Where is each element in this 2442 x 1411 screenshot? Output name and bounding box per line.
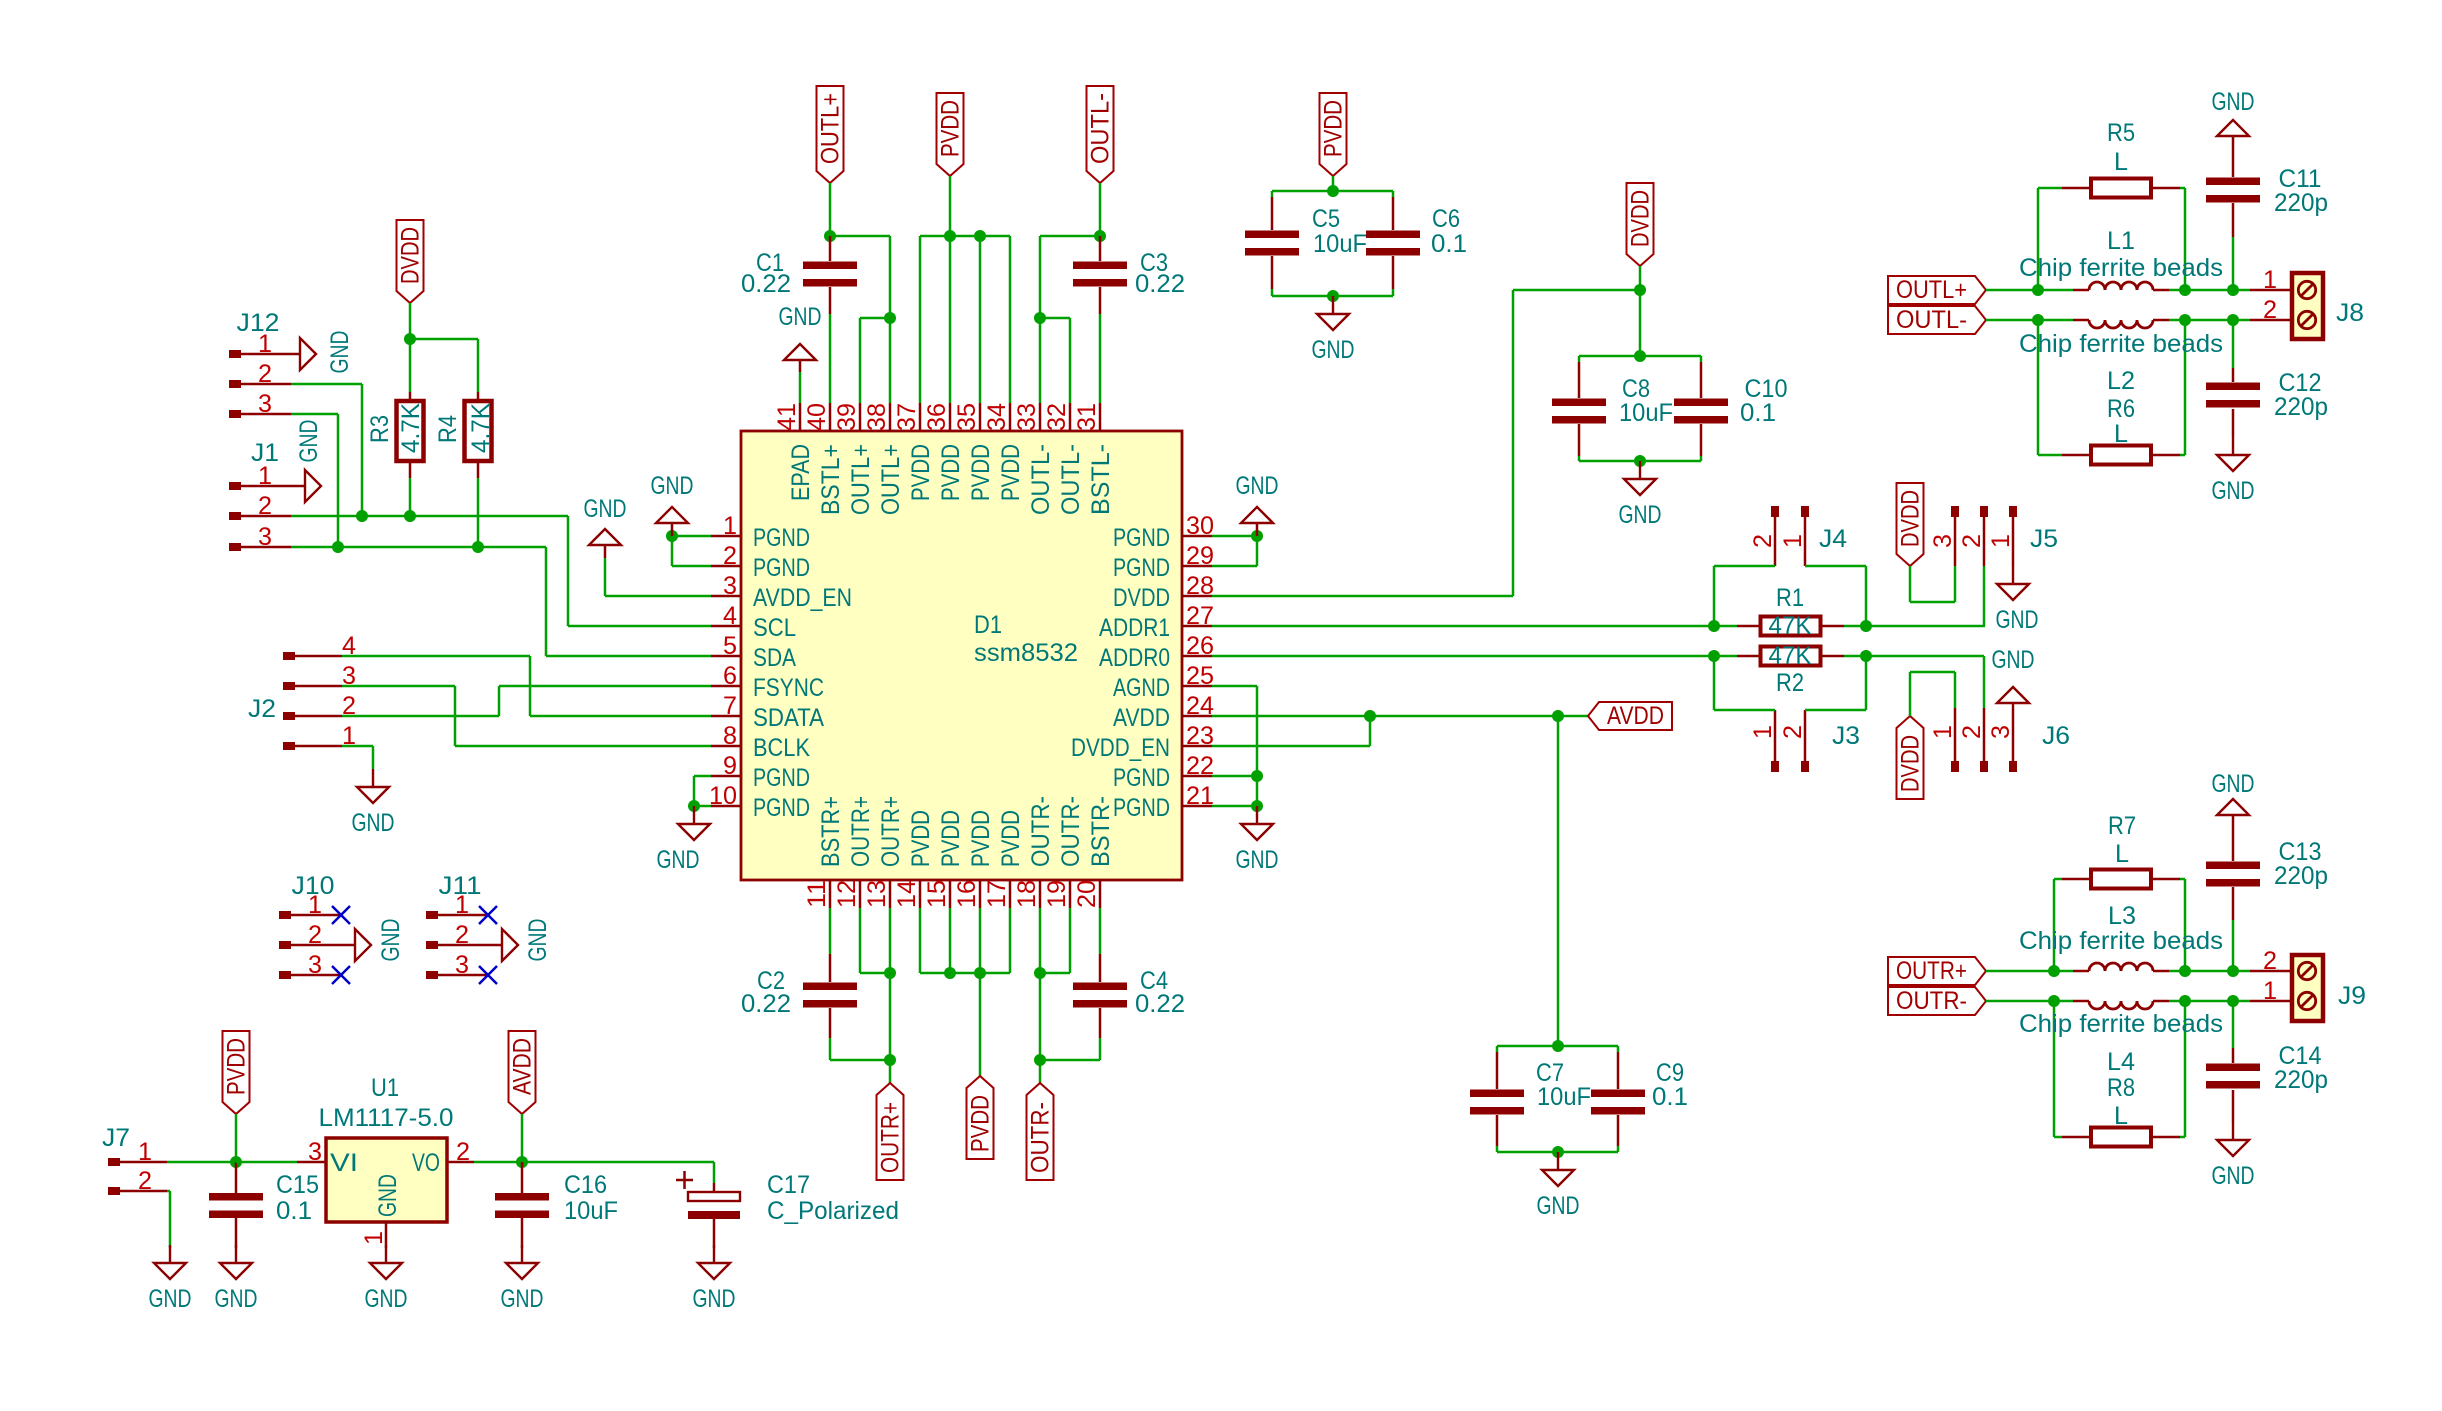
svg-text:PVDD: PVDD	[223, 1038, 251, 1095]
svg-text:C17: C17	[767, 1171, 810, 1199]
svg-text:Chip ferrite beads: Chip ferrite beads	[2019, 330, 2223, 358]
svg-text:35: 35	[953, 403, 981, 431]
svg-text:PVDD: PVDD	[967, 1095, 995, 1152]
svg-text:3: 3	[1929, 534, 1957, 548]
svg-text:VO: VO	[412, 1149, 440, 1177]
svg-text:26: 26	[1186, 632, 1214, 660]
svg-text:PVDD: PVDD	[997, 444, 1025, 501]
svg-text:2: 2	[456, 1138, 470, 1166]
svg-text:C6: C6	[1432, 205, 1460, 233]
svg-text:0.1: 0.1	[276, 1197, 312, 1225]
svg-text:2: 2	[1958, 725, 1986, 739]
svg-text:1: 1	[1987, 534, 2015, 548]
svg-text:31: 31	[1073, 403, 1101, 431]
svg-text:J2: J2	[248, 695, 276, 723]
svg-text:Chip ferrite beads: Chip ferrite beads	[2019, 254, 2223, 282]
svg-text:J8: J8	[2336, 299, 2364, 327]
svg-text:GND: GND	[657, 846, 700, 874]
svg-text:22: 22	[1186, 752, 1214, 780]
svg-text:L: L	[2115, 840, 2129, 868]
svg-text:33: 33	[1013, 403, 1041, 431]
svg-text:EPAD: EPAD	[787, 444, 815, 501]
svg-text:0.22: 0.22	[1135, 990, 1185, 1018]
svg-text:U1: U1	[371, 1074, 399, 1102]
svg-text:0.1: 0.1	[1431, 230, 1467, 258]
svg-text:0.1: 0.1	[1740, 399, 1776, 427]
svg-text:1: 1	[258, 330, 272, 358]
svg-text:OUTR+: OUTR+	[1896, 957, 1967, 985]
svg-text:OUTR+: OUTR+	[877, 796, 905, 867]
svg-text:SDATA: SDATA	[753, 704, 824, 732]
svg-text:ssm8532: ssm8532	[974, 639, 1078, 667]
svg-text:1: 1	[1749, 725, 1777, 739]
svg-text:14: 14	[893, 880, 921, 908]
svg-text:39: 39	[833, 403, 861, 431]
svg-text:L4: L4	[2107, 1048, 2135, 1076]
svg-text:7: 7	[723, 692, 737, 720]
svg-text:PVDD: PVDD	[907, 810, 935, 867]
svg-text:GND: GND	[295, 420, 323, 463]
svg-text:R6: R6	[2107, 395, 2135, 423]
svg-text:PVDD: PVDD	[937, 100, 965, 157]
svg-text:34: 34	[983, 403, 1011, 431]
svg-text:PGND: PGND	[753, 524, 810, 552]
svg-text:4.7K: 4.7K	[397, 403, 425, 453]
svg-text:BSTL-: BSTL-	[1087, 444, 1115, 515]
svg-text:220p: 220p	[2274, 1066, 2328, 1094]
svg-text:GND: GND	[1996, 606, 2039, 634]
svg-text:GND: GND	[1312, 336, 1355, 364]
svg-text:PGND: PGND	[1113, 524, 1170, 552]
svg-text:4: 4	[723, 602, 737, 630]
svg-text:4.7K: 4.7K	[467, 403, 495, 453]
svg-text:5: 5	[723, 632, 737, 660]
svg-text:20: 20	[1073, 880, 1101, 908]
svg-text:GND: GND	[1537, 1192, 1580, 1220]
svg-text:GND: GND	[584, 495, 627, 523]
svg-text:3: 3	[308, 951, 322, 979]
svg-text:47K: 47K	[1769, 642, 1812, 670]
svg-text:J3: J3	[1832, 722, 1860, 750]
svg-text:BSTL+: BSTL+	[817, 444, 845, 515]
svg-text:0.22: 0.22	[1135, 270, 1185, 298]
svg-text:15: 15	[923, 880, 951, 908]
svg-text:PGND: PGND	[1113, 554, 1170, 582]
svg-text:47K: 47K	[1769, 612, 1812, 640]
svg-text:18: 18	[1013, 880, 1041, 908]
svg-text:PVDD: PVDD	[1320, 100, 1348, 157]
svg-text:40: 40	[803, 403, 831, 431]
svg-text:VI: VI	[330, 1149, 358, 1177]
svg-text:GND: GND	[365, 1285, 408, 1313]
svg-text:3: 3	[723, 572, 737, 600]
svg-text:DVDD: DVDD	[1897, 490, 1925, 547]
svg-text:GND: GND	[1236, 846, 1279, 874]
svg-text:1: 1	[258, 462, 272, 490]
svg-text:2: 2	[2263, 947, 2277, 975]
svg-text:AGND: AGND	[1113, 674, 1170, 702]
svg-text:21: 21	[1186, 782, 1214, 810]
svg-text:DVDD: DVDD	[1627, 190, 1655, 247]
svg-text:C16: C16	[564, 1171, 607, 1199]
svg-text:37: 37	[893, 403, 921, 431]
svg-text:25: 25	[1186, 662, 1214, 690]
svg-text:2: 2	[455, 921, 469, 949]
svg-text:GND: GND	[2212, 88, 2255, 116]
svg-text:GND: GND	[352, 809, 395, 837]
svg-text:GND: GND	[501, 1285, 544, 1313]
svg-text:GND: GND	[2212, 1162, 2255, 1190]
svg-text:C15: C15	[276, 1171, 319, 1199]
svg-text:OUTL-: OUTL-	[1896, 306, 1967, 334]
svg-text:OUTL+: OUTL+	[1896, 276, 1967, 304]
svg-text:DVDD: DVDD	[1113, 584, 1170, 612]
svg-text:L: L	[2114, 420, 2128, 448]
svg-text:ADDR1: ADDR1	[1099, 614, 1170, 642]
svg-text:C5: C5	[1312, 205, 1340, 233]
svg-text:10uF: 10uF	[1537, 1083, 1591, 1111]
svg-text:SCL: SCL	[753, 614, 796, 642]
svg-text:GND: GND	[2212, 770, 2255, 798]
svg-text:OUTL-: OUTL-	[1057, 444, 1085, 515]
svg-text:PVDD: PVDD	[997, 810, 1025, 867]
svg-text:R7: R7	[2108, 812, 2136, 840]
svg-text:0.22: 0.22	[741, 990, 791, 1018]
svg-text:L3: L3	[2108, 902, 2136, 930]
svg-text:28: 28	[1186, 572, 1214, 600]
svg-text:L1: L1	[2107, 227, 2135, 255]
svg-text:PVDD: PVDD	[937, 444, 965, 501]
svg-text:GND: GND	[374, 1174, 402, 1217]
svg-text:GND: GND	[149, 1285, 192, 1313]
svg-text:220p: 220p	[2274, 189, 2328, 217]
svg-text:2: 2	[1749, 534, 1777, 548]
svg-text:J9: J9	[2338, 982, 2366, 1010]
svg-text:3: 3	[308, 1138, 322, 1166]
svg-text:17: 17	[983, 880, 1011, 908]
svg-text:1: 1	[1779, 534, 1807, 548]
svg-text:24: 24	[1186, 692, 1214, 720]
svg-text:0.1: 0.1	[1652, 1083, 1688, 1111]
svg-text:AVDD: AVDD	[1113, 704, 1170, 732]
svg-text:38: 38	[863, 403, 891, 431]
svg-text:GND: GND	[651, 472, 694, 500]
svg-text:PVDD: PVDD	[967, 444, 995, 501]
svg-text:PGND: PGND	[1113, 764, 1170, 792]
svg-text:DVDD_EN: DVDD_EN	[1071, 734, 1170, 762]
svg-text:30: 30	[1186, 512, 1214, 540]
svg-text:2: 2	[258, 360, 272, 388]
svg-text:GND: GND	[779, 303, 822, 331]
svg-text:2: 2	[308, 921, 322, 949]
svg-text:L: L	[2114, 1102, 2128, 1130]
svg-text:D1: D1	[974, 611, 1002, 639]
svg-text:10uF: 10uF	[564, 1197, 618, 1225]
svg-text:2: 2	[1958, 534, 1986, 548]
svg-text:12: 12	[833, 880, 861, 908]
svg-text:PGND: PGND	[753, 554, 810, 582]
svg-text:1: 1	[1929, 725, 1957, 739]
svg-text:OUTL-: OUTL-	[1027, 444, 1055, 515]
svg-text:29: 29	[1186, 542, 1214, 570]
svg-text:PVDD: PVDD	[967, 810, 995, 867]
svg-text:R5: R5	[2107, 119, 2135, 147]
svg-text:Chip ferrite beads: Chip ferrite beads	[2019, 927, 2223, 955]
svg-text:BSTR+: BSTR+	[817, 796, 845, 867]
svg-text:BCLK: BCLK	[753, 734, 810, 762]
svg-text:GND: GND	[1992, 646, 2035, 674]
svg-text:OUTR+: OUTR+	[877, 1102, 905, 1173]
svg-text:R2: R2	[1776, 669, 1804, 697]
svg-text:1: 1	[308, 891, 322, 919]
svg-text:2: 2	[723, 542, 737, 570]
svg-text:10: 10	[709, 782, 737, 810]
svg-text:PGND: PGND	[753, 794, 810, 822]
svg-text:AVDD_EN: AVDD_EN	[753, 584, 852, 612]
svg-text:GND: GND	[215, 1285, 258, 1313]
svg-text:32: 32	[1043, 403, 1071, 431]
svg-text:AVDD: AVDD	[509, 1038, 537, 1095]
svg-text:SDA: SDA	[753, 644, 796, 672]
svg-text:8: 8	[723, 722, 737, 750]
svg-text:220p: 220p	[2274, 862, 2328, 890]
svg-text:R1: R1	[1776, 584, 1804, 612]
svg-text:OUTR-: OUTR-	[1057, 796, 1085, 867]
svg-text:PVDD: PVDD	[937, 810, 965, 867]
svg-text:1: 1	[455, 891, 469, 919]
svg-text:DVDD: DVDD	[1897, 735, 1925, 792]
svg-text:OUTR+: OUTR+	[847, 796, 875, 867]
svg-text:220p: 220p	[2274, 393, 2328, 421]
svg-text:Chip ferrite beads: Chip ferrite beads	[2019, 1010, 2223, 1038]
svg-text:ADDR0: ADDR0	[1099, 644, 1170, 672]
svg-text:OUTR-: OUTR-	[1027, 1102, 1055, 1173]
svg-text:GND: GND	[1619, 501, 1662, 529]
svg-text:3: 3	[455, 951, 469, 979]
svg-text:2: 2	[2263, 296, 2277, 324]
svg-text:L2: L2	[2107, 367, 2135, 395]
svg-text:OUTR-: OUTR-	[1896, 987, 1967, 1015]
svg-text:OUTL+: OUTL+	[877, 444, 905, 515]
svg-text:1: 1	[723, 512, 737, 540]
svg-text:10uF: 10uF	[1619, 399, 1673, 427]
svg-text:OUTL-: OUTL-	[1087, 93, 1115, 164]
svg-text:OUTL+: OUTL+	[817, 93, 845, 164]
svg-text:C_Polarized: C_Polarized	[767, 1197, 899, 1225]
svg-text:16: 16	[953, 880, 981, 908]
svg-text:DVDD: DVDD	[397, 227, 425, 284]
svg-text:J4: J4	[1819, 525, 1847, 553]
svg-text:0.22: 0.22	[741, 270, 791, 298]
svg-text:GND: GND	[1236, 472, 1279, 500]
svg-text:3: 3	[258, 523, 272, 551]
svg-text:GND: GND	[693, 1285, 736, 1313]
svg-text:LM1117-5.0: LM1117-5.0	[319, 1104, 454, 1132]
svg-text:OUTR-: OUTR-	[1027, 796, 1055, 867]
svg-text:AVDD: AVDD	[1607, 702, 1664, 730]
svg-text:PGND: PGND	[753, 764, 810, 792]
svg-text:GND: GND	[377, 919, 405, 962]
svg-text:6: 6	[723, 662, 737, 690]
svg-text:10uF: 10uF	[1313, 230, 1367, 258]
svg-text:13: 13	[863, 880, 891, 908]
svg-text:3: 3	[258, 390, 272, 418]
svg-text:36: 36	[923, 403, 951, 431]
svg-text:GND: GND	[326, 331, 354, 374]
svg-text:2: 2	[258, 492, 272, 520]
svg-text:GND: GND	[524, 919, 552, 962]
svg-text:1: 1	[2263, 977, 2277, 1005]
svg-text:27: 27	[1186, 602, 1214, 630]
svg-text:1: 1	[138, 1138, 152, 1166]
svg-text:GND: GND	[2212, 477, 2255, 505]
svg-text:J5: J5	[2030, 525, 2058, 553]
svg-text:PVDD: PVDD	[907, 444, 935, 501]
svg-text:41: 41	[773, 403, 801, 431]
svg-text:J6: J6	[2042, 722, 2070, 750]
svg-text:PGND: PGND	[1113, 794, 1170, 822]
svg-text:L: L	[2114, 148, 2128, 176]
svg-text:3: 3	[1987, 725, 2015, 739]
svg-text:11: 11	[803, 880, 831, 908]
svg-text:19: 19	[1043, 880, 1071, 908]
svg-text:R8: R8	[2107, 1074, 2135, 1102]
svg-text:23: 23	[1186, 722, 1214, 750]
svg-text:OUTL+: OUTL+	[847, 444, 875, 515]
svg-text:1: 1	[2263, 266, 2277, 294]
svg-text:J7: J7	[102, 1124, 130, 1152]
svg-text:R4: R4	[434, 415, 462, 443]
svg-text:BSTR-: BSTR-	[1087, 796, 1115, 867]
svg-text:2: 2	[1779, 725, 1807, 739]
svg-text:R3: R3	[366, 415, 394, 443]
svg-text:1: 1	[360, 1231, 388, 1245]
svg-text:9: 9	[723, 752, 737, 780]
svg-text:FSYNC: FSYNC	[753, 674, 824, 702]
svg-text:2: 2	[138, 1167, 152, 1195]
